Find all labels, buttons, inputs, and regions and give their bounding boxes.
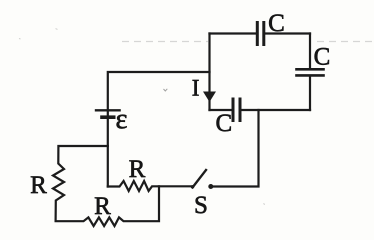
- svg-text:I: I: [192, 76, 200, 101]
- svg-text:R: R: [129, 156, 146, 183]
- svg-text:R: R: [30, 172, 47, 199]
- svg-text:C: C: [215, 110, 232, 137]
- svg-text:R: R: [94, 193, 111, 220]
- svg-text:ε: ε: [116, 104, 128, 135]
- svg-text:C: C: [314, 44, 331, 71]
- svg-text:S: S: [194, 192, 208, 219]
- svg-text:C: C: [268, 10, 285, 37]
